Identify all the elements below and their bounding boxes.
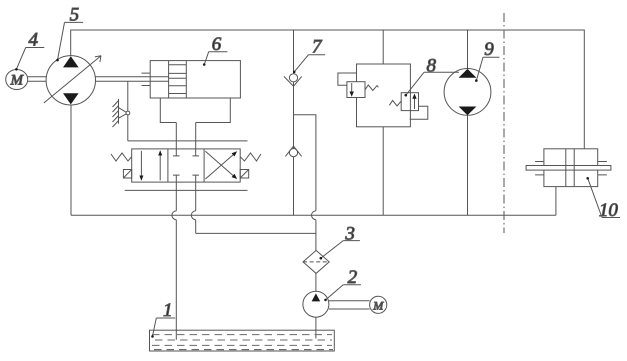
- cylinder C10 piston: [566, 149, 574, 187]
- directional valve right solenoid: [240, 170, 249, 179]
- label 4: [15, 30, 44, 71]
- directional valve right section crossed arrows: [205, 151, 237, 179]
- wire cylinder6 left port with step: [160, 98, 176, 123]
- label 10: [586, 177, 620, 221]
- wire boost line horizontal: [196, 232, 316, 234]
- relief valve U8b (right): [389, 93, 418, 111]
- pump U2: [303, 291, 329, 317]
- wire cylinder10 bottom port: [555, 187, 557, 216]
- shaft pump2 to motor: [329, 301, 370, 309]
- directional valve V body: [132, 149, 241, 182]
- check valve CV7: [284, 74, 302, 86]
- cylinder C10 body: [544, 149, 598, 187]
- label 1: [151, 300, 175, 338]
- relief valve U8a (left): [347, 82, 379, 98]
- relief block U8 left pilot tab: [338, 73, 357, 85]
- directional valve right spring: [240, 153, 261, 161]
- cylinder C10 rod (through rod): [526, 166, 611, 171]
- svg-text:M: M: [372, 298, 384, 312]
- relief block U8 body: [357, 64, 411, 127]
- wire pump5 bottom to main return: [70, 105, 72, 216]
- centerline (dash-dot): [503, 13, 505, 233]
- label 8: [405, 55, 460, 96]
- servo cylinder C6 piston band: [169, 61, 187, 98]
- directional valve left section arrows: [139, 150, 162, 181]
- shaft motor4 to pump5: [28, 77, 47, 81]
- cylinder C10 mounting wings: [535, 162, 607, 175]
- label 3: [320, 223, 360, 259]
- shaft pump5 to cylinder6 piston: [95, 77, 168, 81]
- wire block8 top port: [382, 30, 384, 64]
- check valve CV lower: [285, 146, 301, 157]
- wire motor9 bottom port: [467, 115, 469, 215]
- svg-text:M: M: [9, 73, 24, 89]
- label 6: [203, 34, 228, 66]
- filter F3: [303, 250, 329, 273]
- wire valve B port up: [195, 123, 197, 149]
- lever pivot support (wall with hatching): [113, 99, 130, 127]
- directional valve centre section blocked ports: [173, 149, 199, 182]
- wire cylinder6 right port with step: [196, 98, 231, 123]
- label 2: [324, 267, 361, 301]
- wire branch to boost line (with hop over main line): [294, 115, 316, 251]
- wire feedback horizontal line: [128, 140, 248, 142]
- wire valve P port down (with hop): [191, 182, 195, 233]
- label 7: [293, 36, 325, 73]
- electric motor M4: [6, 70, 28, 90]
- label 5: [56, 5, 83, 62]
- electric motor M2: [370, 296, 387, 313]
- servo cylinder C6 body: [150, 61, 240, 98]
- directional valve left solenoid: [123, 170, 131, 179]
- wire valve A port up: [175, 123, 177, 149]
- servo cylinder C6 rod gland brackets: [142, 73, 151, 85]
- wire main return line: [71, 214, 556, 216]
- wire motor9 top port: [467, 30, 469, 69]
- svg-text:7: 7: [312, 36, 323, 57]
- wire valve T port down to tank (with hop): [172, 182, 176, 340]
- svg-text:8: 8: [426, 55, 436, 76]
- wire block8 bottom port: [382, 127, 384, 216]
- wire feedback pivot vertical: [127, 81, 129, 141]
- wire line below valve: [125, 189, 248, 191]
- relief block U8 right pilot tab: [410, 106, 428, 119]
- tank T1: [150, 330, 335, 351]
- wire filter3 to pump2: [315, 273, 317, 291]
- hydraulic motor U9: [444, 69, 491, 116]
- svg-text:3: 3: [344, 223, 355, 244]
- wire pump2 suction into tank: [315, 317, 317, 338]
- directional valve left spring: [111, 153, 132, 161]
- label 9: [475, 39, 500, 82]
- wire top bus: [71, 30, 585, 149]
- pump U5 variable displacement: [44, 56, 101, 105]
- wire check-valve branch vertical: [293, 30, 295, 215]
